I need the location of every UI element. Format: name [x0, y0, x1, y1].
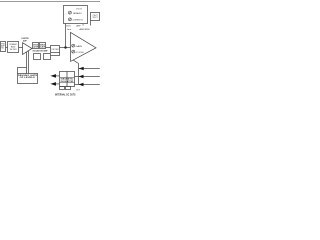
bus line 2 arrowhead	[79, 75, 84, 78]
svg-text:INTERNAL DC CKTS: INTERNAL DC CKTS	[55, 93, 76, 96]
ringing gate text	[18, 74, 38, 79]
gain knob R3	[72, 44, 75, 47]
bus line 1	[79, 68, 100, 70]
knob R1	[68, 11, 71, 14]
magnetic isolator shelf bottom	[60, 82, 75, 84]
knob R2	[68, 18, 71, 21]
output box B7 text	[93, 15, 98, 19]
svg-text:FILTER: FILTER	[10, 49, 17, 51]
svg-text:OF LEVELS: OF LEVELS	[20, 77, 36, 79]
wire preamp to chopper amp	[19, 47, 23, 49]
preamp box B2 text	[9, 43, 17, 51]
left arrow 1 tail wire	[56, 75, 60, 77]
left arrow 2	[50, 82, 56, 86]
svg-text:10: 10	[82, 25, 84, 27]
svg-text:CKT: CKT	[76, 90, 80, 92]
svg-text:PUT: PUT	[93, 17, 98, 19]
svg-text:AMPERE: AMPERE	[79, 28, 90, 31]
bus line 3 arrowhead	[79, 83, 84, 86]
filter box B5	[51, 46, 60, 53]
left arrow 1	[50, 74, 56, 78]
box B3b text	[40, 45, 46, 49]
magnetic isolator box B8	[60, 72, 75, 87]
dc level knob R4	[72, 50, 75, 53]
left arrow 2 tail wire	[56, 83, 60, 85]
svg-text:AMP: AMP	[23, 39, 27, 42]
wire probe to preamp	[6, 47, 8, 49]
demodulator box B3b	[40, 43, 46, 49]
svg-text:VARIABLE: VARIABLE	[73, 12, 83, 15]
wire filter to output amp	[60, 47, 71, 49]
svg-text:FILTER: FILTER	[52, 49, 60, 51]
ringing gate box B9	[18, 74, 38, 84]
wire chopper to ringing gate 1	[26, 52, 28, 74]
control box B6	[64, 6, 88, 24]
box B3a text	[33, 45, 39, 49]
oscillator box B4a	[34, 54, 41, 60]
svg-text:GAIN: GAIN	[75, 45, 83, 48]
probe box B1 text	[1, 44, 5, 50]
top rule line	[0, 1, 100, 3]
svg-text:DC LEVEL: DC LEVEL	[75, 52, 84, 54]
magnetic isolator text	[61, 78, 75, 83]
chopper amp label	[21, 38, 29, 42]
svg-text:10mV: 10mV	[66, 26, 71, 28]
svg-text:DEMOD: DEMOD	[40, 45, 46, 47]
svg-text:CURRENT A: CURRENT A	[73, 19, 84, 22]
magnetic isolator divider	[66, 72, 68, 87]
wire chopper to ringing gate 2	[28, 51, 30, 74]
rectifier box B4b	[44, 54, 51, 60]
output box stub wire	[90, 21, 92, 26]
output amplifier triangle U2	[71, 32, 97, 61]
wire B3b to filter	[46, 47, 51, 49]
magnetic isolator lower tab right	[66, 87, 71, 90]
wire elbow to ringing gate	[18, 68, 27, 74]
svg-text:PRB: PRB	[1, 44, 4, 46]
wire B4b to filter	[51, 53, 60, 56]
svg-text:VOLTS: VOLTS	[76, 8, 82, 10]
svg-text:OUT: OUT	[93, 15, 98, 17]
probe box B1	[1, 42, 6, 52]
feedback bus wire	[78, 64, 80, 85]
preamp box B2	[8, 42, 19, 53]
chopper amp triangle U1	[23, 43, 33, 55]
feedback diagonal wire	[73, 60, 78, 64]
svg-text:ISOLATION AMP: ISOLATION AMP	[33, 49, 49, 52]
bus line 2	[75, 76, 100, 78]
svg-text:ISOLATOR: ISOLATOR	[61, 80, 75, 83]
bus line 1 arrowhead	[79, 67, 84, 70]
svg-text:MODU: MODU	[33, 45, 38, 47]
magnetic isolator shelf top	[60, 77, 75, 79]
magnetic isolator lower tab left	[60, 87, 65, 90]
junction node dot	[64, 46, 66, 48]
wire control box to junction	[65, 24, 67, 48]
svg-text:Iout: Iout	[67, 28, 72, 31]
output box B7	[91, 13, 100, 21]
bus line 3	[75, 84, 100, 86]
modulator box B3a	[33, 43, 39, 49]
